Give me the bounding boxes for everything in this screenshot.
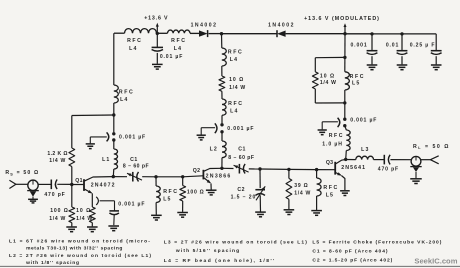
capacitor 470 pF input	[50, 180, 52, 190]
svg-text:100 Ω: 100 Ω	[50, 208, 69, 214]
ground Q3 emitter	[340, 190, 350, 192]
wire Q2 node to C1b	[222, 167, 234, 169]
svg-text:8 – 60 pF: 8 – 60 pF	[123, 163, 149, 169]
svg-text:2N4072: 2N4072	[91, 183, 116, 189]
svg-text:SeekIC.com: SeekIC.com	[414, 257, 457, 266]
inductor L3	[356, 156, 374, 159]
svg-text:470 pF: 470 pF	[44, 192, 65, 198]
wire right column c	[345, 126, 347, 130]
wire base node down	[71, 185, 73, 208]
inductor RFC L4 (center top)	[222, 48, 227, 66]
svg-text:metals T30-13) with 3/32'' spa: metals T30-13) with 3/32'' spacing	[26, 246, 123, 252]
node 39 ohm	[287, 168, 290, 171]
output arrow	[430, 156, 438, 164]
wire node to 39ohm node	[260, 168, 289, 170]
svg-text:+13.6 V (MODULATED): +13.6 V (MODULATED)	[304, 16, 380, 22]
wire rail seg6	[286, 33, 345, 35]
wire 1.2K to base node	[71, 167, 73, 185]
ground RFC L5 stage3	[311, 210, 322, 212]
wire parallel bottom	[315, 102, 345, 104]
node bypass 0.01	[400, 32, 403, 35]
wire RFC L5b stem	[316, 170, 318, 178]
svg-text:1/4 W: 1/4 W	[320, 80, 337, 86]
wire rail seg4	[209, 33, 222, 35]
inductor RFC L4 (left column)	[114, 85, 119, 103]
wire node to C2	[259, 169, 261, 188]
wire C2 to gnd	[259, 195, 261, 211]
inductor L1	[114, 149, 118, 169]
svg-text:1.0 µH: 1.0 µH	[322, 141, 343, 147]
svg-text:1.2 K Ω: 1.2 K Ω	[47, 151, 67, 157]
capacitor 0.01 bypass stem	[401, 34, 403, 50]
svg-text:1/4 W: 1/4 W	[294, 191, 311, 197]
wire 10ohm to gnd	[91, 223, 93, 227]
ground feedthrough center	[197, 134, 206, 136]
node interstage1 RFC	[154, 175, 157, 178]
inductor RFC L5 parallel	[345, 72, 350, 90]
svg-text:L4 = RF bead (one hole), 1/8'': L4 = RF bead (one hole), 1/8''	[164, 258, 276, 264]
ground for 0.01 uF	[152, 63, 163, 65]
svg-text:L1 = 6T #26 wire wound on toro: L1 = 6T #26 wire wound on toroid (micro-	[9, 238, 151, 244]
svg-text:L5: L5	[352, 81, 360, 87]
wire center column a	[221, 34, 223, 48]
wire rail seg8	[372, 33, 402, 35]
wire right column a	[344, 34, 346, 58]
resistor 10 ohm center	[219, 76, 225, 91]
supply +13.6 V (MODULATED) arrow	[344, 26, 346, 33]
supply +13.6 V arrow	[156, 26, 158, 33]
svg-text:Q1: Q1	[75, 178, 83, 184]
svg-text:2N3866: 2N3866	[206, 174, 232, 180]
node center column top	[220, 32, 223, 35]
wire center column d	[221, 115, 223, 123]
svg-text:0.25 µ F: 0.25 µ F	[410, 43, 436, 49]
svg-text:0.01 µF: 0.01 µF	[160, 54, 183, 60]
capacitor 0.001 uF feedthrough right	[343, 118, 346, 121]
resistor 100 ohm base	[69, 207, 75, 223]
svg-text:with 1/8'' spacing: with 1/8'' spacing	[25, 260, 80, 266]
resistor 1.2K	[69, 148, 75, 167]
svg-text:L5: L5	[326, 192, 334, 198]
wire RFC L5 to gnd stage1	[155, 203, 157, 215]
wire parallel right lower	[344, 90, 346, 103]
svg-text:10 Ω: 10 Ω	[229, 77, 244, 83]
wire feedthrough1 to ground	[90, 136, 107, 138]
svg-text:RFC: RFC	[350, 74, 365, 80]
svg-text:10 Ω: 10 Ω	[76, 208, 91, 214]
ground RFC L5 stage1	[151, 214, 162, 216]
wire L3 to cap	[374, 159, 385, 161]
svg-text:1/4 W: 1/4 W	[49, 216, 66, 222]
svg-text:0.001 µF: 0.001 µF	[119, 135, 146, 141]
capacitor 470 pF output	[383, 155, 385, 165]
svg-text:L4: L4	[174, 46, 182, 52]
svg-text:L3: L3	[361, 147, 369, 153]
wire left column lower	[113, 140, 115, 149]
svg-text:L1: L1	[102, 157, 110, 163]
svg-text:L3 = 2T #26 wire wound on toro: L3 = 2T #26 wire wound on toroid (see L1…	[164, 239, 308, 245]
wire left column upper	[113, 33, 115, 85]
svg-text:RFC: RFC	[119, 89, 134, 95]
ground input source	[28, 198, 38, 200]
ground C2	[255, 211, 266, 213]
svg-text:0.001 µF: 0.001 µF	[118, 202, 145, 208]
svg-text:with 5/16'' spacing: with 5/16'' spacing	[175, 248, 240, 254]
svg-text:L5 = Ferrite Choke (Ferroxcube: L5 = Ferrite Choke (Ferroxcube VK-200)	[312, 239, 442, 245]
resistor 39 ohm	[286, 178, 292, 199]
ground feedthrough1	[86, 143, 95, 145]
svg-text:0.01: 0.01	[386, 43, 399, 49]
capacitor 0.01 (rail bypass)	[397, 50, 408, 52]
wire bias horizontal	[72, 114, 114, 117]
capacitor 0.001 uF emitter bypass	[109, 210, 119, 212]
svg-text:1.5 – 20: 1.5 – 20	[231, 194, 257, 200]
svg-text:Q2: Q2	[193, 168, 201, 174]
svg-text:1N4002: 1N4002	[268, 23, 295, 29]
wire center column e	[221, 132, 223, 141]
svg-text:8 – 60 pF: 8 – 60 pF	[228, 155, 254, 161]
wire 0.01 uF to ground	[156, 53, 158, 64]
wire L2 to Q2 collector node	[221, 158, 223, 169]
ground 10 ohm	[87, 226, 98, 228]
svg-text:39 Ω: 39 Ω	[294, 183, 308, 189]
wire feedthrough2 to ground	[201, 127, 215, 129]
wire 100ohm to gnd	[71, 223, 73, 227]
wire Q3 emitter to gnd	[341, 176, 345, 191]
wire rail seg7	[345, 33, 372, 35]
wire to Q2 base	[183, 176, 203, 177]
ground Q2 emitter	[206, 189, 217, 191]
wire node to 100 ohm stage1	[182, 177, 184, 186]
input arrow	[9, 180, 16, 188]
capacitor 0.01 uF bypass stem	[156, 33, 158, 47]
svg-text:RFC: RFC	[329, 133, 344, 139]
node Q2 collector	[220, 167, 223, 170]
svg-text:0.001 µF: 0.001 µF	[350, 118, 377, 124]
capacitor C1 8-60 pF variable (stage1)	[132, 172, 134, 182]
svg-text:C1: C1	[130, 157, 138, 163]
wire Q2 emitter to gnd	[210, 183, 212, 189]
wire node to 100ohm node	[156, 176, 183, 178]
wire parallel right upper	[344, 57, 346, 71]
transistor Q3 2N5641	[334, 162, 336, 175]
svg-text:1/4 W: 1/4 W	[229, 85, 246, 91]
wire cap to load circle	[390, 159, 411, 161]
inductor RFC L4 (second, top rail)	[168, 30, 191, 33]
svg-text:RFC: RFC	[228, 49, 243, 55]
svg-text:RFC: RFC	[127, 38, 142, 44]
diode D2 1N4002	[277, 31, 286, 37]
capacitor 0.001 uF feedthrough stage1	[112, 132, 115, 135]
svg-text:L2: L2	[210, 146, 218, 152]
inductor RFC 1.0 uH	[346, 130, 350, 151]
wire 100ohm stage2 to gnd	[182, 201, 184, 212]
bottom rule	[0, 265, 460, 267]
svg-text:1/4 W: 1/4 W	[76, 216, 93, 222]
capacitor 0.001 uF emitter bypass arc	[96, 197, 98, 205]
wire cap1 to gnd	[371, 56, 373, 64]
wire cap to base node	[57, 183, 72, 185]
wire cap3 to gnd	[435, 56, 437, 64]
svg-text:C1: C1	[238, 146, 246, 152]
svg-text:10 Ω: 10 Ω	[320, 73, 335, 79]
svg-text:1/4 W: 1/4 W	[49, 158, 66, 164]
svg-text:L5: L5	[163, 197, 171, 203]
arrow into ground output	[410, 166, 421, 168]
svg-text:100 Ω: 100 Ω	[187, 190, 205, 196]
load circle output	[411, 156, 421, 166]
svg-text:C2 = 1.5-20 pF (Arco 402): C2 = 1.5-20 pF (Arco 402)	[312, 257, 393, 263]
ground rail bypass 2	[397, 64, 408, 66]
wire 39ohm to gnd	[288, 199, 290, 209]
capacitor 0.25 uF (rail bypass)	[431, 50, 442, 52]
wire top rail left segment	[114, 32, 125, 34]
ground emitter bypass	[108, 225, 119, 227]
resistor 10 ohm parallel	[312, 72, 318, 89]
wire C1b to node	[249, 168, 260, 170]
wire RFC L5b to gnd	[316, 196, 318, 210]
inductor RFC L5 stage1	[156, 186, 160, 203]
ground output load	[410, 178, 422, 180]
ground 100 ohm	[66, 226, 77, 228]
node C2 takeoff	[258, 167, 261, 170]
svg-text:RFC: RFC	[163, 189, 178, 195]
wire collector to L3	[346, 159, 356, 161]
wire rail seg3	[190, 32, 199, 34]
capacitor 0.001 uF feedthrough center	[220, 123, 223, 126]
svg-text:L4: L4	[120, 97, 128, 103]
resistor 100 ohm stage2 base	[180, 186, 186, 202]
svg-text:L4: L4	[230, 57, 238, 63]
arrow into ground input	[27, 190, 39, 192]
wire node to RFC L5b node	[289, 168, 317, 170]
node Q3 collector	[344, 158, 347, 161]
wire rail seg9 to corner	[402, 33, 436, 35]
ground rail bypass 3	[431, 64, 442, 66]
wire rail seg5	[222, 33, 278, 35]
node Q1 collector	[112, 175, 115, 178]
wire base node to Q1	[72, 184, 84, 186]
wire feedthrough3 to ground	[322, 121, 338, 123]
inductor RFC L4 (center lower)	[222, 99, 226, 115]
wire circle to out arrow	[421, 159, 431, 161]
wire right column b	[344, 103, 346, 118]
node +13.6V feed	[156, 32, 159, 35]
svg-text:0.001 µF: 0.001 µF	[227, 126, 254, 132]
wire node to RFC L5 stage1	[155, 177, 157, 186]
node +13.6V modulated feed	[343, 32, 346, 35]
svg-text:RFC: RFC	[171, 38, 186, 44]
wire Q1 emitter down	[91, 193, 93, 207]
wire center column c	[221, 91, 223, 99]
wire to Q3 base	[317, 169, 335, 171]
ground 39 ohm	[284, 209, 295, 211]
wire parallel left upper	[314, 58, 316, 72]
diode D1 1N4002	[199, 30, 208, 36]
wire rail seg2	[157, 32, 167, 34]
wire 39ohm stem	[288, 169, 290, 178]
ground rail bypass 1	[367, 64, 378, 66]
wire parallel top	[315, 56, 345, 58]
capacitor 0.001 bypass stem	[371, 34, 373, 50]
transistor Q1 2N4072	[83, 179, 85, 191]
svg-text:C2: C2	[237, 187, 245, 193]
capacitor C2 1.5-20 pF variable	[255, 189, 265, 191]
svg-text:L4: L4	[230, 109, 238, 115]
node bias takeoff	[112, 113, 115, 116]
inductor RFC L5 stage3	[317, 178, 322, 196]
wire C1 to node	[142, 176, 156, 178]
wire center column b	[221, 66, 223, 76]
resistor 10 ohm emitter	[89, 207, 95, 223]
svg-text:0.001: 0.001	[351, 43, 368, 49]
svg-text:470 pF: 470 pF	[378, 166, 399, 172]
svg-text:Q3: Q3	[326, 160, 334, 166]
wire left column mid	[113, 103, 115, 132]
ground feedthrough right	[318, 129, 327, 131]
node interstage1 100ohm	[181, 175, 184, 178]
svg-text:1N4002: 1N4002	[191, 23, 218, 29]
capacitor 0.001 (rail bypass)	[367, 50, 378, 52]
wire parallel left lower	[314, 89, 316, 103]
wire circle to cap	[38, 183, 51, 185]
node parallel top	[343, 56, 346, 59]
node bypass 0.001	[370, 32, 373, 35]
wire cap2 to gnd	[401, 56, 403, 64]
svg-text:L4: L4	[129, 46, 137, 52]
svg-text:L2 = 2T #26 wire wound on toro: L2 = 2T #26 wire wound on toroid (see L1…	[9, 253, 152, 259]
inductor RFC L4 (first, top rail)	[125, 29, 157, 34]
node RFC L5 stage3	[315, 168, 318, 171]
wire RFC to collector node	[345, 151, 348, 160]
svg-text:+13.6 V: +13.6 V	[144, 15, 168, 21]
node parallel bottom	[343, 101, 346, 104]
svg-text:RFC: RFC	[323, 185, 338, 191]
source circle input	[28, 180, 38, 190]
capacitor C1 8-60 pF variable (stage2)	[238, 164, 240, 174]
wire L1 to collector node	[112, 169, 115, 177]
ground 100 ohm stage2	[177, 212, 188, 214]
capacitor 0.01 uF	[152, 46, 163, 48]
wire collector node to C1	[113, 176, 127, 178]
transistor Q2 2N3866	[202, 170, 204, 180]
svg-text:C1 = 8-60 pF (Arco 404): C1 = 8-60 pF (Arco 404)	[312, 248, 388, 254]
svg-text:2N5641: 2N5641	[341, 165, 366, 171]
svg-text:RFC: RFC	[228, 101, 243, 107]
wire input to source circle	[16, 183, 28, 185]
wire emitter bypass to gnd	[113, 215, 115, 225]
node Q1 base	[70, 183, 73, 186]
inductor L2	[222, 141, 226, 158]
